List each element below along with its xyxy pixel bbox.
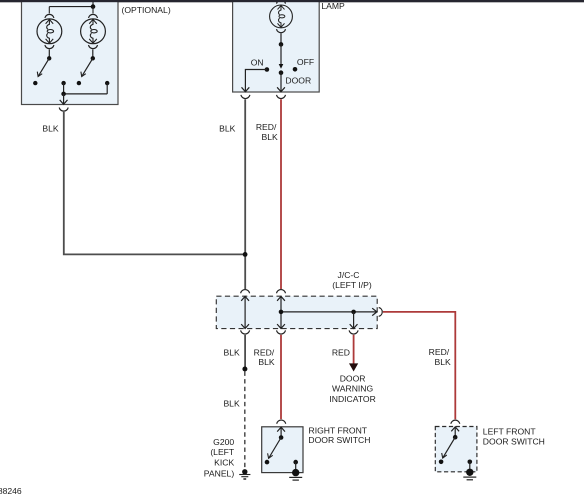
svg-text:BLK: BLK (223, 398, 240, 408)
svg-text:WARNING: WARNING (332, 384, 374, 394)
svg-text:PANEL): PANEL) (204, 469, 235, 479)
svg-text:DOOR SWITCH: DOOR SWITCH (308, 435, 370, 445)
svg-text:INDICATOR: INDICATOR (329, 394, 375, 404)
svg-text:G200: G200 (213, 437, 234, 447)
svg-text:LAMP: LAMP (321, 1, 345, 11)
svg-text:ON: ON (251, 57, 264, 67)
svg-text:BLK: BLK (262, 132, 279, 142)
svg-text:(LEFT: (LEFT (210, 447, 235, 457)
svg-text:BLK: BLK (219, 123, 236, 133)
svg-text:BLK: BLK (258, 357, 275, 367)
svg-text:RED/: RED/ (429, 347, 450, 357)
svg-text:BLK: BLK (224, 347, 241, 357)
svg-text:J/C-C: J/C-C (338, 270, 360, 280)
svg-text:(LEFT I/P): (LEFT I/P) (332, 280, 372, 290)
svg-text:LEFT FRONT: LEFT FRONT (483, 427, 537, 437)
svg-text:RED: RED (332, 347, 350, 357)
svg-text:(OPTIONAL): (OPTIONAL) (122, 5, 171, 15)
svg-text:DOOR: DOOR (285, 76, 311, 86)
svg-text:RIGHT FRONT: RIGHT FRONT (309, 426, 368, 436)
svg-text:DOOR: DOOR (340, 373, 366, 383)
svg-text:DOOR SWITCH: DOOR SWITCH (483, 436, 545, 446)
svg-text:KICK: KICK (214, 457, 234, 467)
svg-text:RED/: RED/ (254, 347, 275, 357)
svg-text:RED/: RED/ (256, 122, 277, 132)
svg-text:BLK: BLK (435, 357, 452, 367)
svg-text:88246: 88246 (0, 486, 22, 496)
svg-text:OFF: OFF (297, 57, 314, 67)
svg-text:BLK: BLK (42, 123, 59, 133)
